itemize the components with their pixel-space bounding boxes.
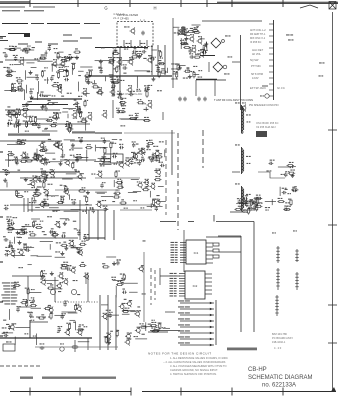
transistor Q65: [47, 306, 53, 313]
wire: [97, 210, 99, 240]
resistor R81: [15, 190, 20, 198]
wire: [51, 64, 53, 72]
resistor R66: [85, 144, 93, 149]
wire: [104, 210, 106, 240]
wire: [179, 65, 186, 67]
pin label: [170, 295, 174, 296]
value label: [65, 219, 67, 220]
wire: [109, 74, 114, 76]
capacitor C35: [43, 105, 48, 111]
wire: [279, 187, 281, 196]
value label: [120, 125, 122, 126]
wire: [28, 264, 32, 266]
wire: [219, 251, 241, 253]
wire: [14, 237, 16, 244]
capacitor C82: [3, 236, 8, 241]
wire: [202, 46, 204, 54]
value label: [5, 247, 7, 248]
capacitor C12: [35, 75, 39, 81]
value label: [98, 67, 101, 68]
pin label: [170, 285, 174, 286]
ground: [30, 95, 34, 99]
transistor Q78: [180, 27, 185, 35]
resistor R98: [117, 184, 125, 189]
svg-text:ANT COIL L-2: ANT COIL L-2: [250, 29, 266, 32]
wire: [2, 23, 28, 25]
value label: [147, 71, 150, 72]
wire: [251, 202, 262, 204]
wire: [110, 156, 112, 163]
wire: [31, 23, 44, 25]
wire: [49, 244, 51, 250]
U2 pin 12: [205, 277, 212, 279]
wire: [55, 189, 120, 191]
value label: [319, 62, 322, 63]
value label: [29, 202, 31, 203]
value label: [112, 279, 114, 280]
value label: [119, 139, 122, 140]
wire: [145, 322, 147, 331]
coil L5: [275, 295, 279, 316]
diode D1: [211, 38, 224, 48]
wire: [12, 275, 45, 277]
value label: [5, 172, 7, 173]
value label: [33, 225, 36, 226]
capacitor C106: [284, 171, 289, 177]
value label: [69, 149, 71, 150]
resistor R133: [102, 263, 110, 268]
wire: [129, 291, 138, 293]
wire: [122, 60, 130, 62]
resistor R13: [86, 76, 91, 84]
value label: [148, 324, 151, 325]
transistor Q34: [99, 156, 106, 163]
resistor R20: [131, 53, 139, 58]
capacitor C114: [252, 199, 258, 204]
transistor Q40: [97, 171, 103, 178]
resistor R84: [16, 193, 24, 198]
svg-text:IC2: IC2: [193, 284, 198, 288]
bus bar: [227, 348, 257, 351]
wire: [0, 365, 42, 367]
resistor R45: [50, 122, 58, 127]
wire: [44, 279, 58, 281]
resistor R112: [6, 225, 14, 230]
resistor R102: [152, 199, 157, 207]
resistor R55: [29, 116, 34, 124]
wire: [46, 77, 48, 84]
resistor R159: [234, 206, 242, 211]
capacitor C62: [103, 206, 108, 212]
wire: [54, 277, 56, 302]
capacitor C28: [7, 71, 13, 76]
resistor R165: [288, 199, 292, 207]
capacitor C2: [13, 55, 18, 61]
resistor R157: [291, 186, 299, 191]
value label: [19, 123, 22, 124]
transistor Q57: [58, 272, 64, 279]
capacitor C18: [39, 92, 44, 97]
resistor R138: [158, 322, 162, 330]
capacitor C60: [42, 177, 47, 182]
ground bus: [20, 377, 33, 379]
node B: [143, 240, 146, 241]
wire: [24, 10, 44, 12]
value label: [239, 208, 241, 209]
resistor R150: [183, 44, 191, 49]
value label: [58, 227, 61, 228]
capacitor C70: [77, 230, 81, 236]
capacitor C91: [16, 306, 21, 312]
resistor R117: [38, 314, 46, 319]
signal arrow 5: [178, 324, 214, 328]
resistor R105: [35, 224, 43, 229]
resistor R3: [10, 87, 18, 92]
wire: [95, 191, 107, 193]
capacitor C19: [117, 94, 122, 99]
value label: [174, 32, 176, 33]
wire: [5, 109, 60, 111]
wire: [48, 43, 58, 45]
value label: [57, 332, 60, 333]
wire: [122, 310, 136, 312]
value label: [22, 51, 24, 52]
wire: [111, 82, 119, 84]
wire: [63, 56, 78, 58]
value label: [143, 58, 146, 59]
value label: [73, 322, 76, 323]
svg-text:SCHEMATIC DIAGRAM: SCHEMATIC DIAGRAM: [248, 375, 313, 381]
value label: [266, 170, 268, 171]
wire: [46, 193, 48, 198]
ground: [59, 162, 63, 166]
ground: [178, 66, 182, 70]
capacitor C80: [8, 220, 14, 225]
wire: [14, 64, 21, 66]
capacitor C81: [22, 229, 27, 234]
wire: [62, 311, 77, 313]
transistor Q47: [30, 180, 35, 187]
resistor R171: [276, 268, 280, 290]
capacitor C45: [44, 159, 49, 165]
capacitor C38: [116, 108, 120, 114]
resistor R33: [158, 60, 166, 65]
svg-text:IC1: IC1: [194, 251, 199, 255]
resistor R41: [56, 112, 61, 120]
wire: [88, 210, 90, 240]
wire: [37, 92, 39, 100]
wire: [106, 256, 116, 258]
wire: [172, 18, 174, 88]
wire: [119, 118, 134, 120]
capacitor C102: [189, 53, 194, 58]
capacitor C111: [253, 203, 257, 209]
U1 pin 6: [180, 254, 186, 256]
wire: [24, 90, 26, 100]
resistor R60: [129, 115, 137, 120]
value label: [3, 320, 6, 321]
value label: [73, 118, 75, 119]
capacitor C118: [295, 272, 299, 290]
wire: [113, 210, 115, 240]
value label: [80, 189, 82, 190]
wire: [236, 203, 246, 205]
resistor R46: [25, 121, 29, 129]
value label: [33, 124, 35, 125]
resistor R31: [39, 55, 47, 60]
value label: [290, 167, 292, 168]
resistor R144: [192, 27, 200, 32]
resistor R28: [116, 66, 120, 74]
resistor R135: [104, 336, 107, 344]
resistor R51: [78, 111, 83, 119]
value label: [252, 208, 255, 209]
resistor R111: [23, 243, 27, 251]
wire: [28, 237, 78, 239]
transistor Q63: [40, 279, 45, 286]
value label: [82, 119, 84, 120]
resistor R5: [61, 57, 69, 62]
capacitor C26: [29, 89, 34, 95]
transistor Q71: [134, 310, 141, 317]
resistor R139: [151, 328, 159, 333]
wire: [37, 118, 49, 120]
transistor Q1: [19, 57, 24, 65]
capacitor C27: [50, 75, 54, 81]
transistor Q8: [17, 83, 22, 91]
resistor R71: [34, 153, 37, 161]
svg-text:13.8V: 13.8V: [252, 77, 259, 80]
resistor R125: [50, 312, 53, 320]
value label: [24, 177, 26, 178]
wire: [0, 337, 92, 339]
capacitor C96: [120, 278, 125, 284]
capacitor C97: [116, 259, 120, 265]
capacitor C33: [25, 101, 30, 107]
resistor R90: [113, 193, 121, 198]
capacitor C87: [41, 273, 47, 278]
transistor Q10: [82, 88, 87, 96]
wire: [64, 139, 75, 141]
value label: [106, 310, 108, 311]
signal arrow 8: [178, 342, 214, 346]
capacitor C66: [90, 207, 96, 213]
wire: [133, 191, 141, 193]
capacitor C7: [147, 85, 153, 91]
wire: [37, 255, 52, 257]
signal arrow 4: [178, 318, 214, 322]
capacitor C71: [6, 219, 10, 225]
value label: [34, 58, 36, 59]
wire: [150, 330, 180, 332]
svg-text:CHASSIS GROUND, NO SIGNAL INPU: CHASSIS GROUND, NO SIGNAL INPUT.: [170, 368, 218, 372]
value label: [78, 75, 81, 76]
ground: [71, 143, 75, 147]
capacitor C54: [73, 156, 79, 162]
wire: [192, 24, 201, 26]
transistor Q82: [199, 49, 204, 57]
resistor R8: [64, 56, 72, 61]
transistor Q61: [9, 323, 16, 330]
resistor R40: [31, 121, 39, 126]
value label: [60, 185, 63, 186]
resistor R32: [64, 70, 68, 78]
wire: [9, 240, 11, 247]
resistor R14: [41, 70, 45, 78]
wire: [84, 23, 100, 25]
wire: [85, 119, 87, 130]
wire: [88, 75, 172, 77]
value label: [46, 162, 48, 163]
wire: [160, 221, 176, 223]
resistor R155: [288, 170, 296, 175]
capacitor C73: [83, 234, 89, 240]
wire: [206, 236, 241, 238]
transistor Q21: [124, 160, 130, 167]
pin label: [170, 275, 174, 276]
wire: [7, 143, 20, 145]
svg-text:OSC BUFF 455 KC: OSC BUFF 455 KC: [256, 121, 279, 125]
value label: [282, 188, 284, 189]
value label: [151, 320, 153, 321]
value label: [107, 339, 110, 340]
resistor R107: [7, 225, 15, 230]
wire: [154, 270, 156, 300]
resistor R115: [20, 299, 28, 304]
transistor Q70: [125, 333, 132, 340]
value label: [129, 59, 131, 60]
resistor R36: [88, 70, 93, 78]
value label: [69, 109, 71, 110]
resistor R108: [60, 242, 68, 247]
value label: [102, 200, 104, 201]
capacitor C14: [98, 68, 102, 74]
value label: [16, 119, 18, 120]
resistor R121: [79, 262, 87, 267]
wire: [10, 152, 12, 156]
U1 pin 12: [206, 250, 213, 252]
wire: [152, 153, 154, 163]
wire: [52, 209, 60, 211]
wire: [30, 321, 48, 323]
value label: [204, 50, 206, 51]
wire: [22, 104, 68, 106]
resistor R163: [254, 198, 259, 206]
ground: [151, 77, 155, 81]
transistor Q76: [135, 327, 140, 334]
wire: [123, 282, 138, 284]
value label: [32, 47, 35, 48]
signal arrow 1: [178, 300, 214, 304]
resistor R142: [193, 53, 201, 58]
svg-text:AGC DET: AGC DET: [252, 49, 264, 52]
value label: [46, 120, 48, 121]
capacitor C40: [135, 113, 139, 119]
wire: [215, 300, 217, 345]
resistor R44: [68, 122, 71, 130]
resistor R18: [56, 71, 60, 79]
wire: [45, 50, 47, 56]
ground: [18, 241, 22, 245]
wire: [53, 102, 58, 104]
transistor Q38: [63, 188, 68, 195]
svg-text:IF 455 KC: IF 455 KC: [250, 41, 261, 44]
capacitor C94: [108, 312, 112, 318]
value label: [10, 64, 12, 65]
wire: [55, 256, 66, 258]
wire: [69, 245, 76, 247]
capacitor C74: [49, 228, 54, 233]
resistor R162: [255, 204, 258, 212]
wire: [58, 51, 63, 53]
wire: [162, 112, 164, 120]
resistor R101: [78, 187, 86, 192]
value label: [142, 159, 145, 160]
capacitor C8: [113, 47, 118, 52]
value label: [31, 289, 33, 290]
ground: [64, 246, 68, 250]
resistor R126: [77, 326, 85, 331]
value label: [137, 306, 140, 307]
resistor R95: [116, 179, 124, 184]
resistor R80: [72, 162, 75, 170]
resistor R120: [60, 264, 68, 269]
resistor R113: [25, 288, 30, 296]
value label: [48, 184, 50, 185]
wire: [55, 301, 98, 303]
transistor Q13: [127, 85, 132, 93]
pin label: [170, 283, 174, 284]
capacitor C77: [61, 232, 66, 237]
value label: [195, 54, 197, 55]
ground: [107, 340, 111, 344]
resistor R38: [66, 125, 74, 130]
pin label: [170, 290, 174, 291]
value label: [116, 260, 118, 261]
capacitor C47: [136, 160, 142, 166]
resistor R109: [52, 231, 60, 236]
svg-text:3. ALL VOLTAGES MEASURED WITH: 3. ALL VOLTAGES MEASURED WITH VTVM TO: [170, 364, 227, 368]
capacitor C44: [132, 141, 136, 147]
resistor R170: [213, 255, 219, 258]
resistor R2: [135, 51, 143, 56]
wire: [122, 313, 130, 315]
value label: [256, 199, 259, 200]
resistor R100: [83, 196, 87, 204]
resistor R16: [16, 77, 24, 82]
capacitor C10: [3, 52, 8, 58]
resistor R164: [255, 203, 263, 208]
resistor R132: [120, 273, 125, 281]
wire: [254, 197, 262, 199]
value label: [87, 82, 89, 83]
value label: [182, 27, 185, 28]
pin label: [171, 244, 175, 245]
wire: [31, 307, 41, 309]
capacitor C30: [75, 106, 81, 111]
transistor Q23: [20, 152, 26, 159]
transistor Q27: [53, 142, 60, 149]
test point TP1: [256, 131, 267, 137]
wire: [150, 268, 152, 305]
wire: [149, 191, 151, 198]
value label: [293, 230, 295, 231]
wire: [27, 276, 29, 300]
value label: [74, 169, 77, 170]
capacitor C3: [111, 82, 116, 87]
wire: [119, 58, 121, 70]
ground: [60, 251, 64, 255]
